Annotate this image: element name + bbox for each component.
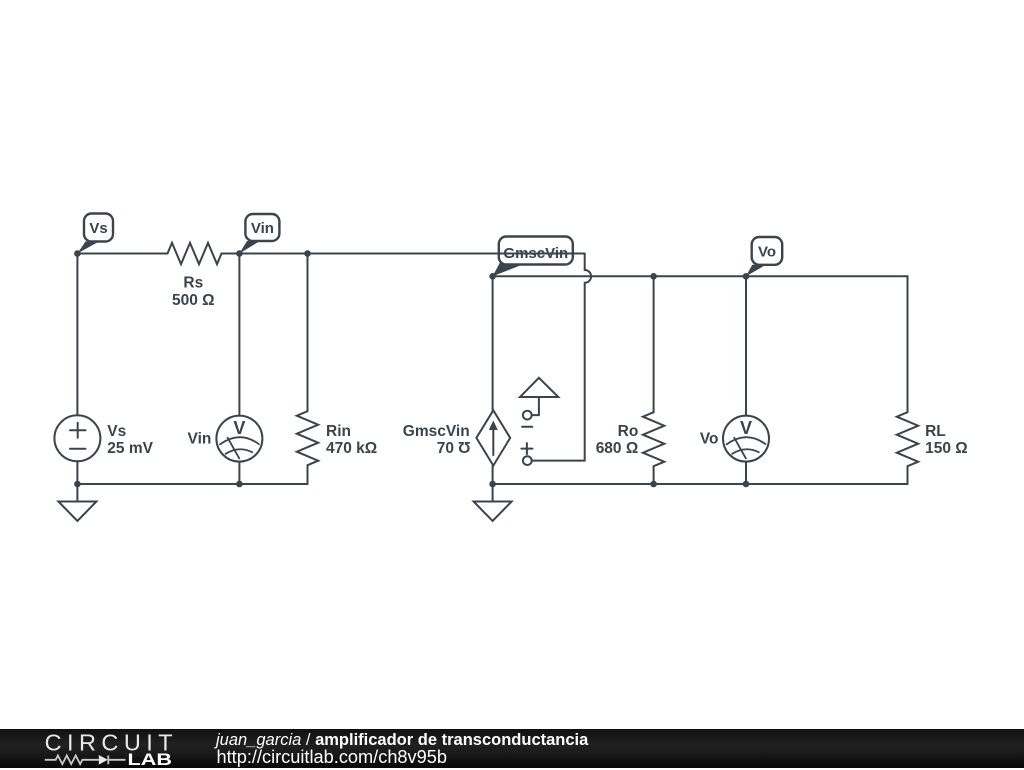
voltage source Vs	[54, 254, 153, 485]
resistor RL	[897, 276, 968, 484]
svg-text:GmscVin: GmscVin	[403, 423, 470, 440]
svg-text:Vo: Vo	[700, 431, 719, 448]
node flag Vo	[746, 237, 782, 276]
footer url	[217, 745, 448, 770]
ground (left)	[58, 484, 96, 521]
svg-text:500 Ω: 500 Ω	[172, 292, 215, 309]
svg-text:RL: RL	[925, 423, 946, 440]
svg-text:Vin: Vin	[251, 220, 274, 237]
CircuitLab logo	[0, 729, 210, 768]
svg-text:25 mV: 25 mV	[107, 440, 153, 457]
resistor Rs	[168, 243, 222, 309]
junction dots	[74, 250, 749, 487]
ground (middle)	[474, 484, 512, 521]
voltmeter Vo	[700, 276, 769, 484]
wire: Vs node to Rs left lead (top-left rail)	[77, 253, 167, 255]
wire: bottom-left ground rail	[77, 483, 307, 485]
voltmeter Vin	[188, 254, 263, 485]
footer bar	[0, 729, 1024, 768]
svg-text:150 Ω: 150 Ω	[925, 440, 968, 457]
wire: Rs right lead to Vin node and onward to sense corner	[222, 253, 585, 255]
svg-text:470 kΩ: 470 kΩ	[326, 440, 377, 457]
svg-text:Vs: Vs	[89, 220, 107, 237]
wire: bottom-right ground rail	[493, 483, 908, 485]
svg-text:680 Ω: 680 Ω	[596, 440, 639, 457]
resistor Ro	[596, 276, 665, 484]
svg-text:Vo: Vo	[758, 244, 776, 261]
svg-text:Rs: Rs	[183, 274, 203, 291]
svg-text:V: V	[233, 418, 245, 438]
svg-text:Vs: Vs	[107, 423, 126, 440]
svg-text:Rin: Rin	[326, 423, 351, 440]
resistor Rin	[297, 254, 377, 485]
svg-text:Ro: Ro	[618, 423, 639, 440]
footer title	[216, 729, 588, 751]
svg-text:70: 70	[437, 440, 454, 457]
wire: top output rail	[493, 275, 908, 277]
VCCS sense terminals (inverted ground, - and + probes)	[520, 378, 558, 465]
svg-text:LAB: LAB	[128, 751, 173, 768]
node flag Vs	[77, 214, 113, 254]
svg-text:V: V	[740, 418, 752, 438]
svg-text:Vin: Vin	[188, 431, 212, 448]
wire: sense vertical drop (Vin sample wire) with hop over rail	[532, 254, 591, 461]
svg-text:Ω: Ω	[458, 438, 470, 455]
node flag Vin	[239, 214, 279, 254]
node flag GmscVin	[493, 237, 573, 277]
current source GmscVin (VCCS diamond)	[403, 276, 510, 484]
